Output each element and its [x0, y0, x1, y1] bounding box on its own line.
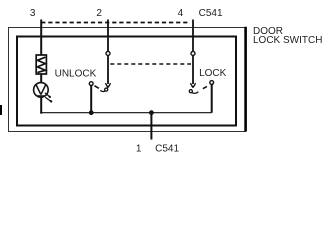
svg-text:LOCK SWITCH: LOCK SWITCH	[253, 35, 322, 46]
svg-text:3: 3	[30, 8, 36, 19]
svg-text:UNLOCK: UNLOCK	[55, 68, 97, 79]
svg-text:1: 1	[136, 143, 142, 154]
svg-text:C541: C541	[155, 143, 179, 154]
svg-text:LOCK: LOCK	[199, 68, 227, 79]
svg-text:4: 4	[178, 8, 184, 19]
svg-text:C541: C541	[199, 8, 223, 19]
svg-text:2: 2	[96, 8, 102, 19]
